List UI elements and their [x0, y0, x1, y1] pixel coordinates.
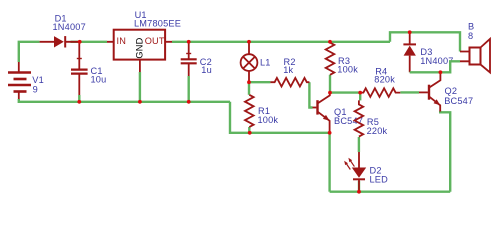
wire R4 right to Q2 base — [400, 91, 419, 93]
svg-text:220k: 220k — [367, 126, 388, 136]
wire R1 bottom to mid rail — [248, 127, 250, 133]
voltage regulator U1 — [107, 30, 172, 72]
junction Q1 collector — [328, 91, 332, 95]
LED D2 — [344, 152, 366, 192]
wire C1 bottom to rail — [78, 95, 80, 102]
transistor Q2 — [419, 72, 440, 111]
svg-text:820k: 820k — [374, 75, 395, 85]
svg-text:LM7805EE: LM7805EE — [134, 19, 181, 29]
wire collector node to R4 node — [330, 91, 360, 93]
lamp L1 — [241, 43, 258, 82]
wire Q1 emitter node down to bottom rail — [328, 133, 330, 192]
svg-text:BC547: BC547 — [444, 96, 473, 106]
svg-text:9: 9 — [33, 84, 38, 94]
wire top rail left (battery to D1) — [19, 42, 40, 62]
junction R1 bottom — [248, 131, 252, 135]
resistor R5 — [355, 100, 364, 136]
junction D2 bottom — [357, 190, 361, 194]
junction R4 left — [358, 91, 362, 95]
wire U1 GND to bottom rail — [139, 72, 141, 102]
junction C1 bottom — [77, 100, 81, 104]
svg-text:L1: L1 — [260, 58, 271, 68]
svg-text:IN: IN — [117, 36, 127, 46]
junction L1 top — [247, 40, 251, 44]
diode D1 — [40, 36, 80, 47]
junction C1 top — [78, 40, 82, 44]
wire jog down to mid rail — [230, 102, 250, 133]
junction Q1 emitter — [328, 131, 332, 135]
svg-text:1k: 1k — [283, 65, 293, 75]
wire C1 node to U1 IN — [80, 41, 107, 43]
wire bottom rail up to Q2 emitter — [440, 111, 450, 192]
svg-text:8: 8 — [468, 31, 473, 41]
wire C2 bottom to rail — [187, 76, 189, 102]
svg-text:1N4007: 1N4007 — [420, 56, 453, 66]
junction C2 top — [187, 40, 191, 44]
junction L1 bottom — [247, 80, 251, 84]
wire top-right jog up to D3 node and speaker — [390, 32, 460, 51]
wire bottom rail left (battery to jog) — [19, 99, 230, 102]
wire R4 node down to R5 — [359, 93, 361, 101]
transistor Q1 — [313, 93, 330, 133]
svg-text:10u: 10u — [91, 74, 107, 84]
wire U1 OUT to C2 node to L1 node to R3 node — [172, 41, 390, 43]
wire bottom rail — [330, 190, 451, 192]
junction D3 top — [408, 30, 412, 34]
wire R5 bottom to D2 — [358, 137, 360, 152]
wire D3 bottom to Q2 collector node to speaker — [410, 61, 460, 72]
speaker B — [460, 39, 490, 73]
wire D2 bottom to bottom rail — [358, 181, 360, 192]
capacitor C2 — [181, 43, 197, 76]
resistor R4 — [360, 88, 400, 97]
diode D3 — [403, 33, 416, 72]
svg-text:GND: GND — [134, 37, 144, 58]
resistor R1 — [245, 95, 254, 127]
junction U1 GND bottom — [138, 100, 142, 104]
junction Q2 collector — [439, 70, 443, 74]
svg-text:B: B — [468, 21, 474, 31]
wire L1 node down to R1 — [248, 82, 250, 95]
svg-text:100k: 100k — [337, 65, 358, 75]
wire mid rail R1 node to Q1 emitter node — [250, 132, 330, 134]
junction R3 top — [328, 40, 332, 44]
svg-text:100k: 100k — [258, 115, 279, 125]
svg-text:Q2: Q2 — [445, 86, 458, 96]
battery V1 — [8, 62, 31, 99]
svg-text:OUT: OUT — [145, 36, 165, 46]
resistor R3 — [326, 43, 335, 75]
junction C2 bottom — [187, 100, 191, 104]
svg-text:1u: 1u — [201, 65, 212, 75]
wire D1 cathode to C1 node — [71, 41, 81, 43]
capacitor C1 — [71, 43, 88, 95]
resistor R2 — [270, 78, 309, 87]
svg-text:LED: LED — [370, 174, 389, 184]
wire R3 bottom to collector node — [329, 75, 331, 93]
wire R2 right down to Q1 base — [309, 82, 312, 107]
svg-text:1N4007: 1N4007 — [53, 22, 86, 32]
wire L1 node to R2 — [249, 81, 270, 83]
